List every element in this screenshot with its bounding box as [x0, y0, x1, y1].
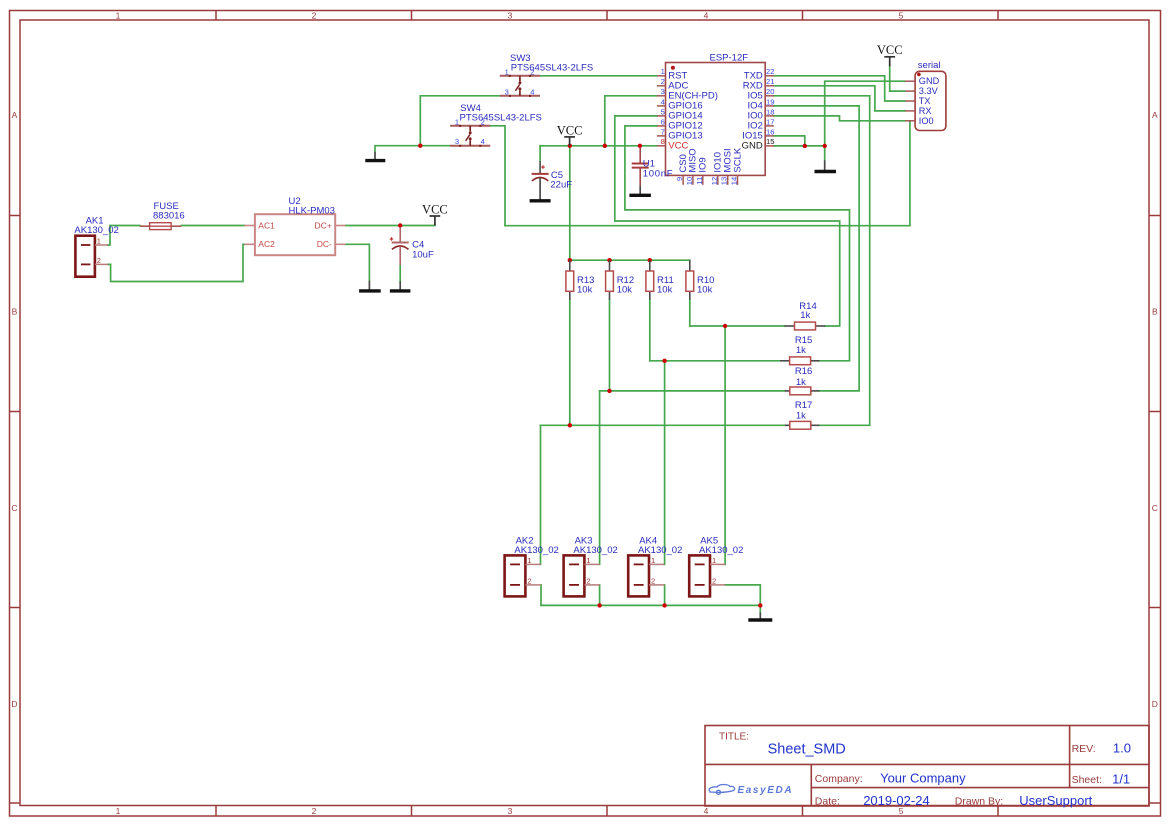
connector AK5 AK130_02: [689, 536, 743, 597]
wire VCC to 3.3V: [890, 66, 906, 91]
svg-text:Your Company: Your Company: [880, 771, 966, 786]
VCC symbol serial: [877, 43, 903, 66]
svg-text:2: 2: [661, 77, 665, 86]
svg-text:AK130_02: AK130_02: [74, 225, 118, 236]
logo EasyEDA: [709, 785, 793, 797]
wire AK2.2 drop: [540, 585, 542, 606]
wire R13 bottom: [569, 300, 571, 426]
svg-text:serial: serial: [918, 60, 941, 71]
svg-text:R16: R16: [795, 366, 812, 377]
wire EN(CH-PD) net: [605, 96, 657, 146]
wire R12 bottom: [609, 300, 611, 391]
wire AK ground bus: [541, 604, 760, 606]
resistor R11: [646, 260, 674, 300]
junction R17 AK2: [568, 423, 572, 427]
wire AK5.2 to bus end: [725, 585, 760, 606]
junction pin16 join: [803, 144, 807, 148]
svg-text:5: 5: [661, 107, 665, 116]
svg-text:VCC: VCC: [557, 123, 583, 137]
wire DC+ to VCC: [346, 225, 435, 227]
junction VCC rail U1: [638, 144, 642, 148]
svg-text:10k: 10k: [657, 285, 673, 296]
wire IO5 to R17: [774, 96, 870, 426]
svg-text:6: 6: [661, 117, 665, 126]
module ESP-12F: [657, 53, 775, 186]
svg-text:1/1: 1/1: [1112, 772, 1130, 787]
VCC symbol U2: [422, 202, 448, 225]
wire node to SW4.3: [420, 145, 450, 147]
svg-text:Company:: Company:: [815, 773, 863, 785]
wire R11 bottom: [649, 300, 651, 361]
svg-text:2: 2: [712, 576, 716, 585]
svg-text:19: 19: [766, 97, 774, 106]
svg-text:A: A: [12, 110, 18, 120]
svg-text:AC1: AC1: [258, 220, 275, 230]
serial pin stubs: [905, 81, 915, 121]
junction R14 AK5: [723, 324, 727, 328]
wire ESP GND pin15: [774, 145, 825, 147]
svg-text:B: B: [1152, 307, 1158, 317]
svg-text:10k: 10k: [617, 285, 633, 296]
svg-text:18: 18: [766, 107, 774, 116]
wire C5 drop: [539, 146, 541, 161]
ground near SW4: [365, 152, 385, 161]
junction bus gnd: [758, 603, 762, 607]
wire AK5 pin1 vertical: [724, 326, 726, 564]
svg-text:A: A: [1152, 110, 1158, 120]
wire 10k top rail: [570, 259, 690, 261]
connector AK4 AK130_02: [628, 536, 682, 597]
svg-text:22: 22: [766, 67, 774, 76]
wire DC- to ground: [346, 244, 370, 280]
ESP-12F left pin numbers 1-8: [661, 67, 665, 146]
svg-text:1: 1: [505, 67, 509, 76]
svg-text:Sheet:: Sheet:: [1072, 774, 1102, 786]
svg-text:1: 1: [527, 556, 531, 565]
connector serial: [905, 60, 946, 131]
ESP-12F pin stubs: [657, 76, 774, 185]
junction rail R12: [607, 258, 611, 262]
ground U1: [629, 186, 651, 195]
resistor R15: [780, 335, 819, 365]
ESP-12F right pin names: [742, 70, 763, 151]
svg-text:3.3V: 3.3V: [919, 86, 939, 96]
resistor R10: [686, 260, 715, 300]
svg-text:16: 16: [766, 127, 774, 136]
svg-text:4: 4: [704, 806, 709, 816]
capacitor U1: [632, 148, 649, 186]
wire SW3.2 to ESP RST: [540, 75, 657, 77]
junction rail R11: [648, 258, 652, 262]
svg-text:4: 4: [530, 87, 534, 96]
svg-text:PTS645SL43-2LFS: PTS645SL43-2LFS: [511, 63, 593, 74]
junction DC+ C4: [398, 223, 402, 227]
svg-text:12: 12: [710, 177, 719, 185]
svg-text:1: 1: [586, 556, 590, 565]
svg-text:883016: 883016: [153, 210, 185, 221]
wire RXD to RX: [774, 86, 905, 111]
resistor R12: [606, 260, 635, 300]
junction VCC rail EN: [603, 144, 607, 148]
wire SW4.2 down (IO0 net): [490, 126, 506, 226]
svg-text:1: 1: [712, 556, 716, 565]
wire R17 row: [541, 424, 785, 426]
VCC symbol mid: [557, 123, 583, 146]
svg-text:AK130_02: AK130_02: [638, 545, 682, 556]
wire AK2 pin1 vertical: [540, 425, 542, 564]
connector AK3 AK130_02: [564, 536, 618, 597]
svg-text:GND: GND: [919, 76, 940, 86]
svg-text:1.0: 1.0: [1113, 741, 1131, 756]
svg-text:4: 4: [661, 97, 665, 106]
svg-text:3: 3: [508, 806, 513, 816]
wire serial GND down: [825, 81, 906, 160]
svg-text:1k: 1k: [796, 377, 806, 388]
svg-text:HLK-PM03: HLK-PM03: [289, 205, 335, 216]
svg-text:C: C: [1152, 503, 1158, 513]
wire fuse to AC1: [181, 225, 244, 227]
connector AK1 AK130_02: [74, 216, 118, 277]
capacitor U1 labels: [643, 159, 673, 180]
ground C4: [390, 281, 411, 291]
svg-text:1: 1: [116, 10, 121, 20]
wire IO0 pin18 to serial: [774, 116, 905, 121]
svg-text:RX: RX: [919, 106, 932, 116]
svg-text:VCC: VCC: [422, 202, 448, 216]
svg-text:2: 2: [527, 576, 531, 585]
svg-text:100nF: 100nF: [643, 168, 673, 179]
svg-text:10uF: 10uF: [412, 249, 434, 260]
svg-text:15: 15: [766, 137, 774, 146]
svg-text:UserSupport: UserSupport: [1019, 793, 1092, 808]
svg-text:20: 20: [766, 87, 774, 96]
svg-text:14: 14: [730, 177, 739, 185]
svg-text:10k: 10k: [577, 285, 593, 296]
svg-text:4: 4: [481, 137, 485, 146]
TITLEBLOCK: [705, 726, 1149, 807]
svg-text:8: 8: [661, 137, 665, 146]
wire bus to ground: [759, 605, 761, 612]
svg-text:D: D: [1152, 699, 1158, 709]
svg-text:10k: 10k: [697, 285, 713, 296]
resistor R16: [785, 366, 820, 395]
svg-text:2019-02-24: 2019-02-24: [863, 793, 930, 808]
svg-text:1: 1: [116, 806, 121, 816]
svg-text:1k: 1k: [796, 345, 806, 356]
switch SW4: [450, 103, 542, 147]
JUNCTIONS: [398, 144, 827, 608]
wire SW3.3 down to gnd node: [420, 96, 500, 146]
svg-text:GND: GND: [742, 140, 763, 151]
svg-text:AC2: AC2: [258, 239, 275, 249]
svg-text:1: 1: [97, 236, 101, 245]
ESP-12F bottom pin numbers 9-14: [675, 177, 738, 185]
svg-text:1k: 1k: [800, 310, 810, 321]
capacitor C4: [390, 227, 434, 265]
wire TXD to TX: [774, 76, 905, 101]
svg-text:5: 5: [899, 10, 904, 20]
svg-text:11: 11: [695, 177, 704, 185]
svg-text:1: 1: [661, 67, 665, 76]
svg-text:Drawn By:: Drawn By:: [955, 796, 1003, 808]
junction R15 AK4: [662, 359, 666, 363]
resistor R13: [566, 260, 595, 300]
serial pin names: [919, 76, 940, 126]
svg-text:21: 21: [766, 77, 774, 86]
svg-text:Date:: Date:: [815, 796, 840, 808]
svg-text:3: 3: [455, 137, 459, 146]
svg-text:IO9: IO9: [698, 157, 709, 172]
ground C5: [530, 181, 551, 201]
wire GPIO12 to R15: [625, 126, 850, 361]
svg-text:AK130_02: AK130_02: [514, 545, 558, 556]
svg-text:7: 7: [661, 127, 665, 136]
svg-text:1: 1: [651, 556, 655, 565]
ground serial/ESP GND: [815, 160, 837, 171]
svg-text:IO0: IO0: [919, 116, 934, 126]
regulator U2 HLK-PM03: [245, 196, 346, 255]
svg-text:TX: TX: [919, 96, 931, 106]
wire GPIO14 to R14: [615, 116, 840, 326]
fuse FUSE 883016: [140, 201, 185, 230]
svg-text:VCC: VCC: [668, 140, 688, 151]
svg-text:AK130_02: AK130_02: [573, 545, 617, 556]
svg-text:EasyEDA: EasyEDA: [738, 785, 794, 796]
svg-text:22uF: 22uF: [550, 180, 572, 191]
junction gnd node: [418, 144, 422, 148]
svg-text:D: D: [11, 699, 17, 709]
wire VCC rail: [540, 145, 657, 147]
wire R14 row left: [690, 325, 785, 327]
svg-text:2: 2: [312, 10, 317, 20]
svg-text:SCLK: SCLK: [732, 147, 743, 172]
svg-text:TITLE:: TITLE:: [719, 732, 749, 743]
connector AK2 AK130_02: [505, 536, 559, 597]
svg-text:9: 9: [675, 177, 684, 181]
wire AK1.2 to AC2: [108, 244, 245, 281]
resistor R14: [785, 301, 826, 330]
junction serial gnd join: [823, 144, 827, 148]
svg-text:VCC: VCC: [877, 43, 903, 57]
ESP-12F left pin names: [668, 70, 718, 151]
svg-text:17: 17: [766, 117, 774, 126]
wire AK4 pin1 vertical: [664, 361, 666, 565]
svg-text:3: 3: [505, 87, 509, 96]
junction rail R13: [568, 258, 572, 262]
svg-text:2: 2: [651, 576, 655, 585]
ESP-12F bottom pin names: [678, 147, 743, 172]
svg-text:1: 1: [455, 117, 459, 126]
svg-text:C: C: [11, 503, 17, 513]
wire AK3 pin1 vertical: [599, 391, 601, 565]
svg-text:10: 10: [685, 177, 694, 185]
svg-text:DC+: DC+: [315, 220, 332, 230]
svg-text:2: 2: [97, 256, 101, 265]
wire IO4 to R16: [774, 106, 859, 391]
svg-text:3: 3: [508, 10, 513, 20]
svg-text:4: 4: [704, 10, 709, 20]
svg-text:13: 13: [720, 177, 729, 185]
wire IO15 pin16: [774, 136, 805, 146]
svg-text:ESP-12F: ESP-12F: [710, 53, 749, 64]
wire C4 lower segment: [399, 265, 401, 281]
capacitor C5: [532, 161, 573, 191]
ESP-12F right pin numbers 22-15: [766, 67, 774, 146]
wire R16 row: [600, 390, 785, 392]
junction bus AK3: [597, 603, 601, 607]
switch SW3: [500, 53, 593, 97]
wire IO0 bus to serial: [505, 121, 910, 226]
resistor R17: [785, 400, 820, 429]
svg-text:DC-: DC-: [317, 239, 332, 249]
junction R16 AK3: [607, 389, 611, 393]
junction VCC rail R13: [568, 144, 572, 148]
wire node to ground: [375, 146, 420, 152]
wire R10 bottom: [689, 300, 691, 326]
wire AK3.2 drop: [599, 585, 601, 606]
ground AK bus: [748, 613, 772, 621]
ground DC-: [359, 281, 381, 291]
wire AK1.1 to fuse: [108, 226, 140, 246]
svg-text:1k: 1k: [796, 410, 806, 421]
svg-text:2: 2: [586, 576, 590, 585]
svg-text:PTS645SL43-2LFS: PTS645SL43-2LFS: [460, 113, 542, 124]
wire AK4.2 drop: [664, 585, 666, 606]
wire R15 row left: [650, 360, 780, 362]
junction bus AK4: [662, 603, 666, 607]
svg-text:Sheet_SMD: Sheet_SMD: [768, 742, 846, 758]
wire VCC to R13: [569, 146, 571, 260]
svg-text:2: 2: [312, 806, 317, 816]
svg-text:AK130_02: AK130_02: [699, 545, 743, 556]
svg-text:B: B: [12, 307, 18, 317]
svg-text:REV:: REV:: [1072, 743, 1096, 755]
svg-text:3: 3: [661, 87, 665, 96]
